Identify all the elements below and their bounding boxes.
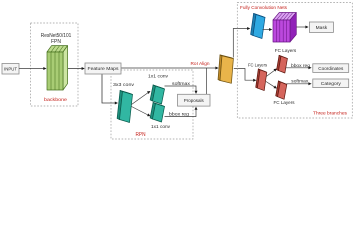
svg-text:RPN: RPN [136, 132, 146, 138]
wire softmax to Category [286, 83, 310, 85]
wire backbone to Feature Maps [68, 68, 84, 70]
svg-text:Coordinates: Coordinates [318, 66, 344, 71]
FCN deconv stack (purple) [273, 13, 296, 43]
svg-text:FC Layers: FC Layers [274, 100, 296, 106]
wire RoI Align top to mask branch conv [233, 29, 248, 58]
svg-text:Category: Category [321, 81, 342, 86]
wire Feature Maps down to RPN 3x3 conv [102, 74, 116, 103]
wire INPUT to backbone [19, 68, 45, 70]
mask branch conv card (cyan) [251, 13, 265, 38]
svg-text:Mask: Mask [316, 25, 328, 31]
wire Feature Maps to RoI Align [121, 67, 217, 69]
RPN 1x1 conv card bottom (teal) [150, 102, 164, 122]
FC layers card bottom-right (red) [276, 81, 287, 99]
svg-text:FPN: FPN [51, 39, 61, 45]
RPN 1x1 conv card top (teal) [150, 85, 164, 104]
Coordinates box [313, 64, 349, 73]
svg-text:softmax: softmax [172, 81, 191, 86]
svg-text:bbox reg: bbox reg [291, 63, 310, 68]
svg-text:backbone: backbone [44, 97, 67, 103]
svg-text:Proposals: Proposals [184, 98, 205, 104]
svg-text:RoI Align: RoI Align [191, 61, 210, 67]
wire FC left to FC top [266, 70, 275, 77]
wire Proposals up to RoI Align [205, 68, 207, 94]
svg-text:FC Layers: FC Layers [248, 63, 268, 69]
svg-text:3x3 conv: 3x3 conv [113, 82, 135, 87]
svg-text:FC Layers: FC Layers [275, 48, 297, 54]
svg-text:1x1 conv: 1x1 conv [151, 124, 171, 129]
wire FCN stack to Mask box [297, 26, 308, 28]
svg-text:INPUT: INPUT [4, 66, 17, 71]
svg-text:1x1 conv: 1x1 conv [148, 74, 169, 79]
svg-text:Three branches: Three branches [313, 111, 348, 117]
wire bbox reg to Proposals [165, 109, 197, 117]
backbone conv stack (green) [47, 46, 68, 90]
wire bbox reg to Coordinates [286, 67, 310, 69]
svg-text:bbox reg: bbox reg [169, 111, 189, 116]
RoI Align output card (orange) [218, 55, 233, 83]
backbone dashed box [31, 23, 79, 106]
svg-text:Fully Convolution Nets: Fully Convolution Nets [240, 5, 288, 11]
Category box [313, 79, 349, 88]
RPN 3x3 conv card (teal) [117, 90, 132, 122]
svg-text:softmax: softmax [291, 79, 309, 84]
FC layers card top-right (red) [277, 55, 288, 73]
wire 3x3 conv to 1x1 conv top [132, 92, 150, 105]
wire cyan conv to FCN stack [263, 29, 271, 31]
Mask box [309, 22, 333, 32]
Proposals box [178, 94, 211, 106]
wire FC left to FC bottom [266, 82, 275, 88]
FC layers card left (red) [256, 69, 267, 91]
Feature Maps box [85, 63, 121, 74]
INPUT box [2, 64, 19, 75]
wire 3x3 conv to 1x1 conv bottom [132, 107, 150, 116]
wire RoI Align right to FC layers branch [234, 69, 255, 81]
Three branches dashed box [237, 3, 352, 119]
RPN dashed box [111, 70, 193, 139]
wire softmax to Proposals [165, 86, 197, 92]
svg-text:Feature Maps: Feature Maps [88, 66, 120, 72]
